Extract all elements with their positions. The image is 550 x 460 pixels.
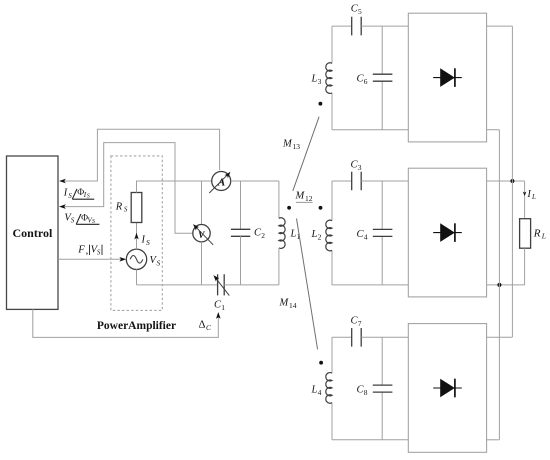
resistor Rs <box>131 193 142 223</box>
polarity dot L2 <box>319 206 323 210</box>
svg-text:L: L <box>541 232 546 241</box>
svg-text:4: 4 <box>318 388 322 397</box>
svg-text:I: I <box>141 235 146 246</box>
svg-text:I: I <box>526 189 531 200</box>
label F,|Vs| <box>77 244 102 256</box>
svg-text:L: L <box>311 74 318 85</box>
label L1 <box>290 229 301 242</box>
svg-text:5: 5 <box>358 7 362 16</box>
capacitor C5 <box>352 17 362 36</box>
svg-text:S: S <box>124 206 128 214</box>
rectifier block 1 <box>408 13 486 142</box>
svg-text:8: 8 <box>364 388 368 397</box>
bus wire plus <box>511 26 513 337</box>
label Vs <box>150 255 161 268</box>
load branch bottom <box>524 248 526 285</box>
wire receiver2 bottom <box>332 284 408 286</box>
label Is <box>141 235 151 248</box>
wire bottom rail right of C1 <box>224 284 279 286</box>
wire rectifier2 out- to RL <box>487 284 525 286</box>
svg-text:L: L <box>290 229 297 240</box>
wire receiver3 top left segment <box>332 336 352 338</box>
label Is angle PhiIs <box>63 188 94 200</box>
label C8 <box>357 385 368 398</box>
svg-text:Δ: Δ <box>199 319 206 331</box>
wire rail ammeter-to-L1 <box>231 180 279 182</box>
voltmeter branch bottom wire <box>201 242 203 285</box>
inductor L3 <box>326 63 332 94</box>
inductor L4 <box>326 373 332 404</box>
svg-text:L: L <box>531 193 536 201</box>
svg-text:S: S <box>71 217 75 225</box>
capacitor C1 (variable) <box>213 274 229 295</box>
svg-text:M: M <box>279 298 290 309</box>
label Rs <box>115 202 128 214</box>
svg-text:S: S <box>97 248 101 256</box>
control block U-CTRL <box>7 156 59 309</box>
wire rectifier1 out+ <box>487 25 513 27</box>
svg-text:Control: Control <box>13 226 53 240</box>
wire receiver2 top right segment <box>361 180 408 182</box>
junction dot minus bus <box>497 283 501 287</box>
svg-text:1: 1 <box>221 303 225 312</box>
label C6 <box>357 74 368 87</box>
svg-text:3: 3 <box>318 77 322 86</box>
capacitor C7 <box>352 328 362 347</box>
wire rectifier3 out- <box>487 439 500 441</box>
label L3 <box>311 74 322 87</box>
svg-text:S: S <box>146 238 150 247</box>
resistor RL <box>520 219 531 249</box>
polarity dot L1 <box>287 206 291 210</box>
capacitor C2 branch top wire <box>240 181 242 229</box>
diode D2 <box>433 223 462 242</box>
junction dot plus bus <box>510 179 514 183</box>
label C3 <box>351 160 362 173</box>
wire rectifier1 out- <box>487 129 500 131</box>
label C1 <box>214 300 225 313</box>
label C4 <box>357 229 368 242</box>
wire control-to-source F,|Vs| <box>58 257 126 262</box>
mutual inductance M14 line <box>297 219 318 350</box>
label C7 <box>351 316 362 329</box>
load branch top with IL arrow <box>523 181 527 219</box>
svg-text:S: S <box>87 194 90 200</box>
polarity dot L3 <box>319 102 323 106</box>
wire receiver3 top right segment <box>361 336 408 338</box>
wire source-to-Rs with Is arrow <box>134 223 138 250</box>
svg-text:M: M <box>295 191 306 202</box>
wire bottom rail left of C1 <box>137 284 218 286</box>
svg-text:2: 2 <box>261 231 265 240</box>
rectifier block 2 <box>408 168 486 297</box>
diode D1 <box>433 68 462 87</box>
wire L1 branch top <box>278 181 280 218</box>
wire L1 branch bottom <box>278 248 280 285</box>
svg-text:L: L <box>311 385 318 396</box>
capacitor C6 <box>373 74 393 81</box>
svg-text:V: V <box>198 231 205 241</box>
svg-text:R: R <box>533 228 541 240</box>
wire voltmeter-to-control (Vs feedback) <box>59 143 193 234</box>
inductor L2 <box>326 220 332 251</box>
inductor L1 <box>279 218 285 249</box>
wire source bottom to rail <box>136 270 138 285</box>
capacitor C8 <box>373 385 393 392</box>
rectifier block 3 <box>408 324 486 453</box>
svg-text:M: M <box>282 139 293 150</box>
wire receiver1 left branch <box>331 26 333 130</box>
voltmeter V <box>193 224 213 245</box>
label L4 <box>311 385 322 398</box>
label C5 <box>351 3 362 16</box>
wire receiver3 bottom <box>332 439 408 441</box>
label M13 <box>282 139 300 152</box>
label M12 with underline <box>295 191 313 204</box>
label C2 <box>254 228 265 241</box>
ammeter A <box>209 172 230 194</box>
capacitor C2 <box>231 229 250 236</box>
label Vs angle PhiVs <box>64 212 99 225</box>
svg-text:S: S <box>68 192 72 200</box>
mutual inductance M13 line <box>293 117 319 191</box>
svg-text:S: S <box>157 259 161 268</box>
svg-text:PowerAmplifier: PowerAmplifier <box>97 320 176 332</box>
wire receiver1 bottom <box>332 129 408 131</box>
svg-text:7: 7 <box>358 319 362 328</box>
wire receiver3 left branch <box>331 337 333 440</box>
capacitor C4 branch <box>381 181 383 285</box>
label Delta C <box>199 319 213 333</box>
wire control-to-C1 (Delta C feedback) <box>33 309 221 337</box>
svg-text:4: 4 <box>364 233 368 242</box>
svg-text:R: R <box>115 202 123 213</box>
bus wire minus <box>498 130 500 440</box>
power amplifier dashed enclosure <box>97 156 176 332</box>
svg-text:,: , <box>86 245 89 256</box>
svg-text:F: F <box>77 244 85 255</box>
capacitor C2 branch bottom wire <box>240 236 242 285</box>
wire ammeter-to-control (Is feedback) <box>59 129 220 183</box>
svg-text:2: 2 <box>318 233 322 242</box>
capacitor C3 <box>352 172 362 191</box>
label RL <box>533 228 546 241</box>
wire rectifier3 out+ <box>487 336 513 338</box>
source Vs (sinusoidal) <box>126 249 146 269</box>
capacitor C4 <box>373 229 393 236</box>
svg-text:12: 12 <box>305 194 313 203</box>
polarity dot L4 <box>319 361 323 365</box>
wire Rs-to-top-rail and rail to ammeter <box>137 181 212 193</box>
svg-text:I: I <box>63 188 68 199</box>
wire receiver2 left branch <box>331 181 333 285</box>
label IL <box>526 189 536 201</box>
label L2 <box>311 229 322 242</box>
voltmeter branch top wire <box>201 181 203 225</box>
svg-text:13: 13 <box>293 142 301 151</box>
diode D3 <box>433 379 462 398</box>
wire receiver2 top left segment <box>332 180 352 182</box>
wire receiver1 top left segment <box>332 25 352 27</box>
label M14 <box>279 298 297 311</box>
svg-text:14: 14 <box>289 301 297 310</box>
svg-text:S: S <box>92 219 95 225</box>
svg-text:3: 3 <box>358 163 362 172</box>
wire rectifier2 out+ to RL <box>487 180 525 182</box>
capacitor C8 branch <box>381 337 383 440</box>
wire receiver1 top right segment <box>361 25 408 27</box>
capacitor C6 branch <box>381 26 383 130</box>
svg-text:C: C <box>206 323 212 332</box>
svg-text:6: 6 <box>364 77 368 86</box>
svg-text:L: L <box>311 229 318 240</box>
